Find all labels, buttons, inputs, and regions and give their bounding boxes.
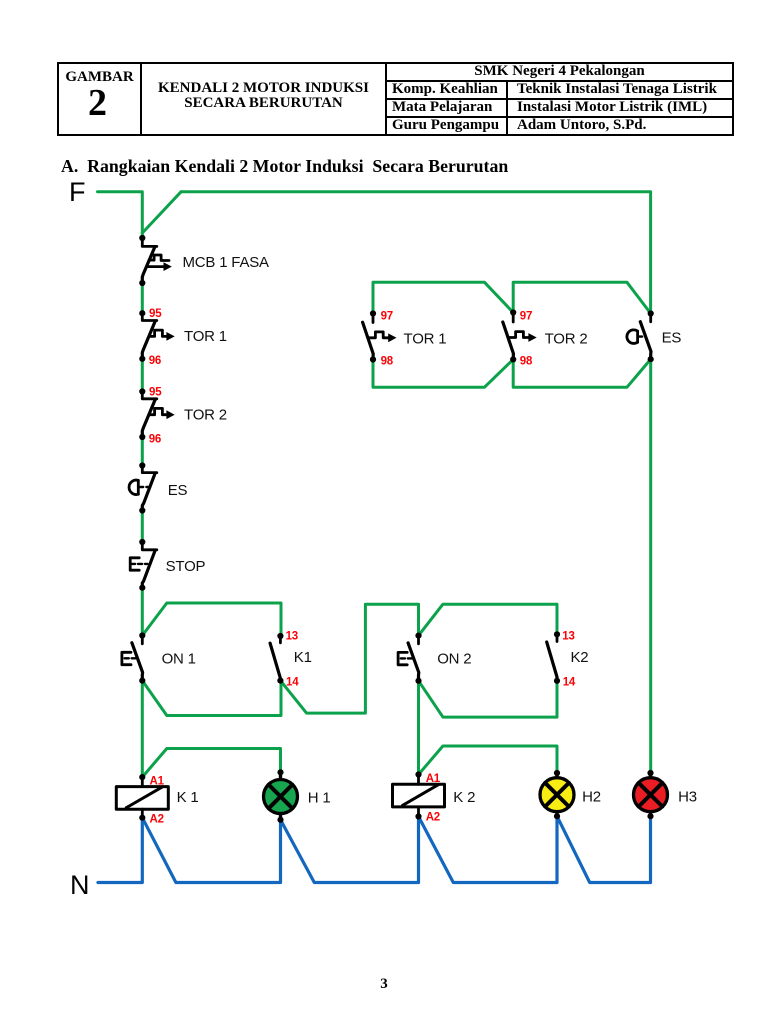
- wire F feed: [98, 192, 143, 238]
- svg-text:98: 98: [381, 356, 394, 368]
- lamp H3 red: [634, 773, 668, 816]
- svg-text:TOR 2: TOR 2: [545, 331, 588, 348]
- contact TOR 1 NO aux (97-98): [363, 314, 393, 360]
- svg-text:13: 13: [562, 631, 574, 643]
- svg-text:ON 1: ON 1: [162, 651, 196, 668]
- node H1 bottom: [277, 817, 283, 823]
- wire feed TOR2 aux branch: [513, 282, 651, 313]
- node K2 13: [554, 631, 560, 637]
- node TOR2 98: [510, 356, 516, 362]
- wire TOR2 to ES: [141, 437, 144, 466]
- node ES bottom: [139, 507, 145, 513]
- node STOP bottom: [139, 585, 145, 591]
- node ON2 bottom: [415, 678, 421, 684]
- svg-text:95: 95: [149, 386, 162, 398]
- svg-text:TOR 2: TOR 2: [184, 406, 227, 423]
- wire K1 contact 14 to ON2: [280, 604, 418, 713]
- svg-text:ON 2: ON 2: [437, 651, 471, 668]
- node ON1 top: [139, 632, 145, 638]
- svg-text:K 2: K 2: [453, 789, 475, 806]
- wire MCB to TOR1: [141, 283, 144, 313]
- node ES aux top: [648, 310, 654, 316]
- contact TOR 2 NO aux (97-98): [503, 313, 533, 360]
- node K2 14: [554, 678, 560, 684]
- node K1 13: [277, 633, 283, 639]
- coil K 2: [393, 775, 445, 817]
- wire branch to lamp H1: [142, 749, 280, 778]
- breaker MCB 1 FASA: [142, 238, 169, 283]
- svg-text:A2: A2: [426, 812, 440, 824]
- svg-text:H 1: H 1: [308, 790, 331, 807]
- wire ON1 K1 parallel bottom bar: [142, 681, 281, 716]
- node K1 A1: [139, 774, 145, 780]
- pushbutton ON 1 NO: [122, 636, 143, 681]
- svg-text:F: F: [69, 177, 86, 207]
- wire ES to STOP: [141, 511, 144, 543]
- section title: [61, 156, 508, 177]
- node TOR1 97: [370, 310, 376, 316]
- coil K 1: [116, 777, 168, 818]
- node ON2 top: [415, 633, 421, 639]
- svg-text:14: 14: [563, 677, 576, 689]
- node TOR1 95: [139, 310, 145, 316]
- svg-text:A1: A1: [426, 773, 441, 785]
- svg-text:ES: ES: [168, 482, 188, 499]
- node H2 bottom: [554, 813, 560, 819]
- svg-text:MCB 1 FASA: MCB 1 FASA: [183, 254, 270, 271]
- node ES aux bottom: [648, 356, 654, 362]
- wire diagonal from F node: [142, 192, 181, 233]
- svg-text:95: 95: [149, 308, 162, 320]
- node ON1 bottom: [139, 678, 145, 684]
- contact K1 NO (13-14): [270, 636, 280, 681]
- contact TOR 2 NC (95-96): [142, 392, 170, 438]
- svg-text:14: 14: [286, 677, 299, 689]
- wire neutral N bus: [98, 816, 651, 882]
- wire branch to lamp H2: [419, 746, 558, 775]
- pushbutton ES NC emergency stop: [129, 466, 157, 511]
- svg-text:K1: K1: [294, 649, 312, 666]
- wire ON1 K1 parallel top bar: [142, 603, 281, 636]
- wire ON2 to coil K2: [417, 681, 420, 775]
- wire STOP to ON1: [141, 588, 144, 636]
- contact K2 NO (13-14): [547, 634, 557, 681]
- svg-text:N: N: [70, 870, 90, 900]
- svg-text:96: 96: [149, 433, 161, 445]
- node TOR2 96: [139, 434, 145, 440]
- node MCB top: [139, 235, 145, 241]
- node H1 top: [277, 769, 283, 775]
- svg-text:98: 98: [520, 356, 533, 368]
- node H2 top: [554, 770, 560, 776]
- lamp H2 yellow: [540, 773, 574, 816]
- wire ON2 K2 parallel top bar: [419, 604, 558, 635]
- wire top phase line to right side: [181, 192, 651, 314]
- pushbutton ON 2 NO: [398, 636, 419, 681]
- svg-text:K2: K2: [571, 649, 589, 666]
- svg-text:A1: A1: [150, 776, 165, 788]
- pushbutton ES NO aux: [627, 314, 651, 360]
- node TOR2 95: [139, 388, 145, 394]
- wire ES to lamp H3: [649, 359, 652, 773]
- node MCB bottom: [139, 280, 145, 286]
- wire feed TOR1 aux branch: [373, 282, 513, 313]
- node TOR1 98: [370, 356, 376, 362]
- svg-text:96: 96: [149, 355, 161, 367]
- wire TOR1 to TOR2: [141, 359, 144, 392]
- svg-text:ES: ES: [662, 330, 682, 347]
- wire TOR2 aux bottom bar: [513, 359, 651, 387]
- lamp H 1 green: [264, 772, 298, 820]
- node TOR2 97: [510, 309, 516, 315]
- node TOR1 96: [139, 356, 145, 362]
- svg-text:TOR 1: TOR 1: [184, 328, 227, 345]
- wire ON2 K2 parallel bottom bar: [419, 681, 558, 717]
- svg-text:97: 97: [520, 311, 532, 323]
- node K2 A2: [415, 813, 421, 819]
- pushbutton STOP NC: [130, 542, 157, 588]
- page number: [370, 976, 398, 993]
- svg-text:H3: H3: [678, 789, 697, 806]
- svg-text:A2: A2: [150, 814, 164, 826]
- svg-text:97: 97: [381, 311, 393, 323]
- svg-text:K 1: K 1: [177, 789, 199, 806]
- node K2 A1: [415, 771, 421, 777]
- svg-text:H2: H2: [582, 789, 601, 806]
- contact TOR 1 NC (95-96): [142, 313, 170, 359]
- node H3 top: [647, 770, 653, 776]
- node K1 14: [277, 678, 283, 684]
- node ES top: [139, 462, 145, 468]
- svg-text:STOP: STOP: [166, 558, 206, 575]
- wire TOR1 aux bottom bar: [373, 359, 513, 387]
- header table: [57, 62, 734, 136]
- node K1 A2: [139, 815, 145, 821]
- wire ON1 to coil K1: [141, 681, 144, 778]
- svg-text:TOR 1: TOR 1: [404, 331, 447, 348]
- node STOP top: [139, 539, 145, 545]
- svg-text:13: 13: [286, 631, 298, 643]
- node H3 bottom: [647, 813, 653, 819]
